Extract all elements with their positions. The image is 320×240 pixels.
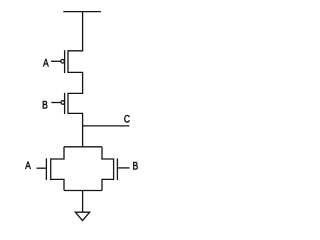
transistor M4 (NMOS, input B) — [114, 158, 130, 180]
svg-text:B: B — [132, 161, 138, 173]
wire VDD stem to PMOS M1 source — [68, 12, 83, 51]
ground — [75, 212, 89, 220]
gate wire M1 — [51, 60, 61, 62]
VDD rail — [63, 11, 101, 13]
gate bar M1 — [64, 50, 66, 73]
wire M2 drain down to output node and NMOS pair — [68, 113, 83, 146]
svg-text:C: C — [124, 113, 130, 125]
gate wire M3 — [37, 167, 47, 169]
bubble M2 gate — [61, 101, 65, 105]
svg-text:A: A — [25, 160, 31, 172]
gate wire M4 — [117, 167, 129, 169]
wire to ground — [82, 191, 84, 212]
wire output node to C — [83, 125, 130, 127]
transistor M1 (PMOS, input A) — [51, 50, 68, 73]
wire M3 source to bottom connection — [51, 179, 64, 190]
wire left branch to M3 drain — [51, 147, 64, 159]
bubble M1 gate — [61, 60, 65, 64]
channel bar M4 — [113, 158, 115, 180]
wire M4 source to bottom connection — [102, 179, 114, 190]
gate bar M2 — [64, 93, 66, 114]
wire bottom connection — [64, 190, 102, 192]
transistor M3 (NMOS, input A) — [37, 158, 51, 180]
gate wire M2 — [51, 102, 61, 104]
transistor M2 (PMOS, input B) — [51, 93, 68, 114]
channel bar M3 — [50, 158, 52, 180]
channel bar M1 — [67, 50, 69, 73]
wire M1 drain to M2 source — [68, 72, 83, 93]
wire right branch to M4 drain — [102, 147, 114, 159]
svg-text:A: A — [43, 58, 49, 70]
wire NMOS top connection — [64, 146, 102, 148]
channel bar M2 — [67, 93, 69, 114]
gate bar M3 — [45, 158, 47, 180]
svg-text:B: B — [42, 99, 48, 111]
gate bar M4 — [116, 158, 118, 180]
